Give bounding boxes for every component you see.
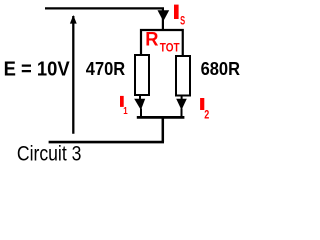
svg-text:1: 1: [123, 106, 128, 117]
arrow Is (current into junction): [158, 10, 170, 21]
arrow I2: [176, 99, 187, 110]
wire junction top bar: [141, 30, 183, 57]
label Is: [174, 5, 185, 28]
wire top horizontal with right drop: [45, 8, 163, 30]
arrow I1: [134, 99, 145, 110]
wire stub below R2: [181, 96, 183, 100]
wire stub below R1: [139, 95, 141, 100]
wire bottom horizontal: [49, 141, 164, 144]
svg-text:470R: 470R: [86, 58, 126, 79]
wire left vertical (source branch): [72, 16, 74, 134]
arrow up (EMF direction): [70, 15, 77, 24]
svg-text:2: 2: [204, 109, 209, 121]
svg-text:Circuit 3: Circuit 3: [17, 143, 82, 166]
label I1: [120, 96, 128, 117]
resistor R2 680R: [176, 56, 190, 96]
svg-text:680R: 680R: [201, 58, 241, 79]
svg-text:TOT: TOT: [160, 40, 180, 54]
wire middle drop to bottom: [162, 117, 165, 142]
svg-text:S: S: [180, 15, 185, 27]
wire junction bottom bar: [137, 116, 185, 119]
svg-text:E = 10V: E = 10V: [4, 59, 71, 81]
svg-text:R: R: [145, 28, 158, 50]
label I2: [200, 98, 209, 121]
resistor R1 470R: [135, 55, 149, 95]
label Rtot: [145, 28, 180, 54]
